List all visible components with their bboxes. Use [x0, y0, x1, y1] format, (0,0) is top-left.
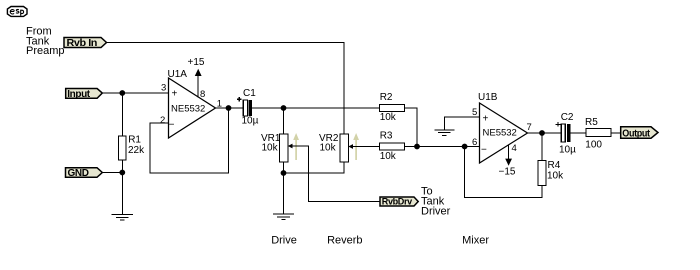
svg-text:U1B: U1B — [478, 92, 498, 103]
wire R2 right — [405, 108, 418, 147]
svg-text:+15: +15 — [188, 57, 205, 68]
svg-text:4: 4 — [512, 143, 517, 154]
svg-text:Output: Output — [622, 128, 650, 139]
capacitor C1 — [237, 88, 259, 127]
svg-text:NE5532: NE5532 — [171, 104, 205, 115]
potentiometer VR1 — [261, 133, 293, 162]
port flag Rvb In — [64, 38, 107, 50]
node R1 bottom junction — [119, 170, 125, 176]
svg-text:NE5532: NE5532 — [483, 128, 517, 139]
wire C1 to R2 — [252, 107, 379, 109]
svg-text:Reverb: Reverb — [327, 235, 362, 247]
wire R1 top — [121, 93, 123, 136]
svg-text:10µ: 10µ — [242, 116, 259, 127]
wire VR2 wiper to R3 — [352, 146, 380, 148]
ground at U1B pin5 — [434, 117, 479, 136]
svg-text:GND: GND — [68, 168, 89, 179]
svg-text:7: 7 — [527, 122, 532, 133]
node U1B output junction — [539, 130, 545, 136]
resistor R2 — [380, 92, 405, 123]
wire U1B feedback — [465, 147, 542, 198]
supply -15 for U1B — [499, 145, 516, 178]
svg-text:−: − — [169, 120, 175, 131]
text From Tank Preamp — [26, 26, 65, 58]
svg-text:U1A: U1A — [168, 69, 188, 80]
capacitor C2 — [556, 112, 576, 156]
svg-text:5: 5 — [472, 107, 477, 118]
svg-text:R2: R2 — [380, 92, 393, 103]
svg-text:Mixer: Mixer — [462, 235, 489, 247]
rotation arrow VR2 — [353, 133, 359, 160]
svg-text:C2: C2 — [561, 112, 574, 123]
svg-text:Driver: Driver — [421, 205, 451, 217]
svg-text:6: 6 — [472, 137, 477, 148]
svg-text:R4: R4 — [548, 160, 561, 171]
wire Rvb In to VR2 top — [107, 43, 345, 135]
svg-text:+: + — [483, 114, 489, 125]
wire Input to U1A pin3 — [102, 92, 168, 94]
svg-text:8: 8 — [200, 89, 205, 100]
rotation arrow VR1 — [293, 133, 299, 160]
port flag GND — [66, 168, 103, 179]
resistor R5 — [585, 117, 611, 151]
svg-text:10k: 10k — [547, 171, 564, 182]
node pin6 feedback junction — [462, 144, 468, 150]
svg-text:10k: 10k — [262, 142, 279, 153]
wire U1B output — [528, 132, 562, 134]
node input/R1 junction — [119, 90, 125, 96]
wire R1 bottom to ground — [121, 160, 123, 215]
potentiometer VR2 — [319, 133, 353, 162]
svg-text:−15: −15 — [499, 167, 516, 178]
svg-text:C1: C1 — [243, 88, 256, 99]
node VR1 top junction — [281, 105, 287, 111]
node R2/R3 junction — [414, 144, 420, 150]
resistor R3 — [380, 131, 405, 162]
svg-text:R5: R5 — [585, 117, 598, 128]
node U1A output junction — [226, 105, 232, 111]
wire VR2 bottom link — [284, 162, 345, 173]
svg-text:Input: Input — [67, 89, 91, 100]
wire C2 to R5 — [570, 132, 586, 134]
svg-text:+: + — [172, 89, 178, 100]
wire U1A output — [216, 107, 244, 109]
svg-text:R3: R3 — [380, 131, 393, 142]
op-amp U1B — [478, 92, 528, 163]
port flag RvbDrv — [380, 197, 418, 208]
ground under VR1 — [273, 214, 294, 220]
wire R4 top to output — [541, 133, 543, 161]
op-amp U1A — [168, 69, 216, 138]
svg-text:3: 3 — [161, 83, 166, 94]
node VR1 bottom junction — [281, 170, 287, 176]
wire U1A pin2 feedback — [150, 108, 229, 173]
svg-text:Preamp: Preamp — [26, 45, 65, 57]
supply +15 for U1A — [188, 57, 205, 98]
svg-text:Drive: Drive — [271, 235, 297, 247]
wire GND to R1 bottom — [102, 172, 122, 174]
text To Tank Driver — [421, 186, 451, 218]
port flag Input — [66, 89, 103, 100]
wire VR1 top — [283, 108, 285, 134]
svg-text:10k: 10k — [320, 142, 337, 153]
svg-text:−: − — [481, 145, 487, 156]
wire VR1 bottom to ground — [283, 162, 285, 214]
svg-text:RvbDrv: RvbDrv — [382, 197, 413, 208]
port flag Output — [621, 127, 658, 140]
wire R3 to U1B pin6 — [405, 146, 480, 148]
resistor R4 — [538, 160, 564, 186]
resistor R1 — [119, 135, 146, 160]
svg-text:10k: 10k — [380, 112, 397, 123]
svg-text:22k: 22k — [128, 145, 145, 156]
svg-text:10µ: 10µ — [559, 145, 576, 156]
wire R5 to Output — [611, 132, 621, 134]
svg-text:Rvb In: Rvb In — [67, 38, 98, 49]
wire VR1 wiper to RvbDrv — [292, 146, 381, 202]
ESP logo — [7, 7, 27, 17]
ground under R1 — [112, 215, 133, 221]
svg-text:100: 100 — [585, 140, 602, 151]
svg-text:10k: 10k — [380, 151, 397, 162]
svg-text:2: 2 — [160, 115, 165, 126]
